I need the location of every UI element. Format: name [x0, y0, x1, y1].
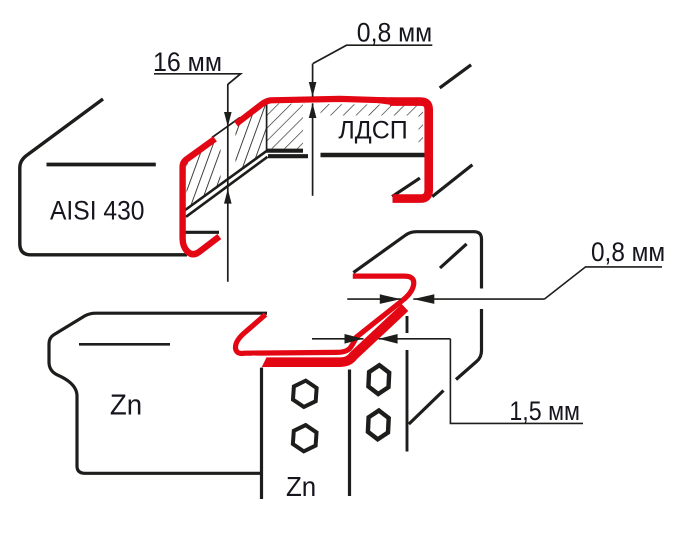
big Zn inner line	[79, 343, 170, 346]
AISI inner ledge line	[47, 163, 156, 167]
slab bottom edge lower line	[186, 157, 268, 217]
slab fold corner line	[266, 104, 268, 151]
red steel wrap: slant segment 2 + top band	[236, 99, 396, 124]
svg-text:ЛДСП: ЛДСП	[338, 116, 407, 144]
red steel wrap: thickness transition wedge	[378, 101, 398, 106]
bracket front hex hole 2	[292, 424, 317, 452]
dimension 0,8 мм top arrow down	[309, 82, 317, 97]
dimension 0,8 мм right line left part	[347, 298, 401, 300]
slab bottom horizontal upper-left segment	[266, 149, 303, 153]
svg-text:0,8 мм: 0,8 мм	[591, 237, 665, 267]
upper-right C-channel bottom diagonal lower segment	[409, 391, 444, 425]
dimension 0,8 мм top arrow up	[309, 103, 317, 118]
bracket side right edge upper segment	[406, 316, 409, 333]
dimension 1,5 мм leader	[450, 339, 583, 424]
svg-text:1,5 мм: 1,5 мм	[509, 396, 580, 426]
bracket front left edge	[260, 368, 263, 500]
dimension 0,8 мм top extension upper	[312, 64, 314, 97]
red thin sheet ribbon (0.8 mm)	[235, 276, 413, 353]
slab bottom horizontal right segment	[321, 153, 429, 158]
panel bottom edge short diagonal left of red	[392, 178, 420, 197]
white clearing for 0,8mm dimension line	[303, 104, 321, 150]
dimension 0,8 мм top leader	[313, 45, 432, 63]
bracket side hex hole 2	[368, 411, 389, 440]
dimension 0,8 мм right leader	[544, 267, 662, 299]
dimension 0,8 мм right line right part	[413, 298, 544, 300]
svg-text:Zn: Zn	[110, 390, 142, 422]
bracket front right edge	[348, 370, 351, 497]
top-right panel break tick upper	[440, 65, 471, 88]
big Zn piece outline	[49, 313, 267, 473]
dimension 0,8 мм arrow right	[380, 294, 401, 304]
thick sheet band slanted left end (white cut)	[252, 356, 267, 369]
label box ЛДСП	[321, 116, 419, 150]
dimension 0,8 мм arrow left	[413, 294, 434, 304]
dimension 16 мм extension line	[227, 84, 229, 282]
red steel wrap: curl + left side + slant segment 1	[183, 139, 220, 254]
dimension 16 мм arrow down	[224, 112, 232, 127]
slab top edge thin line across red gap	[212, 118, 240, 138]
bracket side hex hole 1	[368, 365, 389, 394]
red steel wrap: right edge and bottom hook	[390, 102, 429, 199]
slab bottom edge upper line	[185, 151, 267, 211]
dimension 1,5 мм line right part	[379, 338, 451, 340]
AISI bottom lip line	[185, 231, 220, 234]
dimension 0,8 мм top extension lower	[312, 103, 314, 196]
upper-right C-channel right edge lower segment	[456, 309, 482, 380]
dimension 16 мм leader underline	[154, 74, 241, 85]
bracket front hex hole 1	[293, 380, 318, 408]
dimension 16 мм arrow up	[224, 189, 232, 204]
svg-text:16 мм: 16 мм	[153, 47, 222, 77]
white clearing for 16mm dimension line	[221, 121, 236, 183]
upper-right C-channel inner diagonal	[440, 244, 467, 268]
dimension 1,5 мм arrow left	[379, 334, 398, 344]
top-right panel bottom edge diagonal	[432, 165, 472, 197]
dimension 1,5 мм arrow right	[345, 334, 364, 344]
AISI 430 C-channel outline	[20, 99, 187, 255]
chipboard slanted cut face hatch	[187, 104, 267, 211]
slab bottom horizontal lower-left segment	[268, 154, 308, 158]
dimension 1,5 мм line left part	[312, 338, 364, 340]
red thick sheet band (1.5 mm)	[260, 308, 405, 363]
bracket side right edge lower segment	[406, 350, 409, 452]
upper-right C-channel outline top	[353, 232, 481, 289]
svg-text:Zn: Zn	[286, 471, 316, 502]
svg-text:0,8 мм: 0,8 мм	[357, 18, 432, 48]
svg-text:AISI 430: AISI 430	[50, 195, 145, 225]
chipboard front band hatch	[267, 103, 423, 148]
